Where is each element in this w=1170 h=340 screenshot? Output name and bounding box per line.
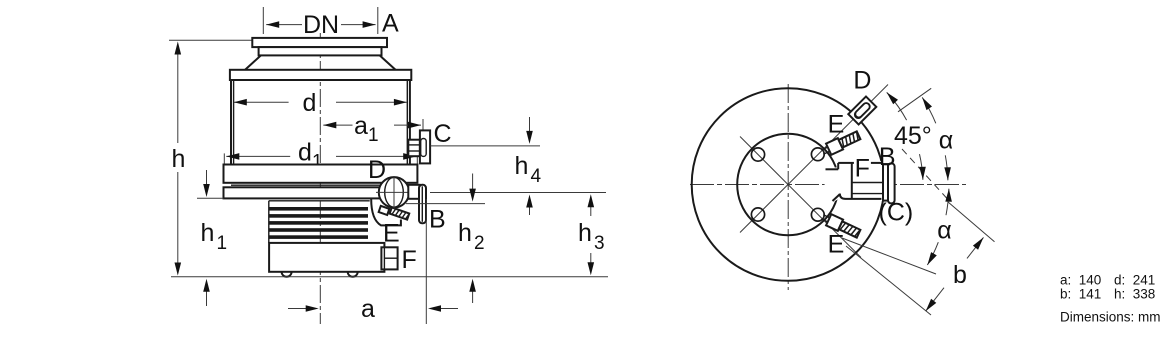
h top reference line bbox=[169, 39, 253, 41]
dimension a bbox=[288, 308, 306, 310]
svg-text:E: E bbox=[828, 111, 845, 139]
outer circle bbox=[692, 88, 885, 281]
bolt hole NW bbox=[751, 148, 764, 161]
d1 right extension tick bbox=[416, 147, 418, 166]
DN extension tick right bbox=[377, 7, 379, 34]
angle dim arc 45deg bbox=[887, 92, 907, 120]
svg-text:α: α bbox=[937, 217, 951, 245]
45deg radial line through D bbox=[788, 85, 888, 185]
svg-text:α: α bbox=[939, 127, 953, 155]
svg-text:b: 141: b: 141 bbox=[1060, 287, 1101, 302]
DN extension tick left bbox=[262, 7, 264, 34]
angle dim arc alpha upper bbox=[922, 97, 936, 123]
svg-text:d: d bbox=[303, 89, 317, 117]
collar band 1 bbox=[224, 165, 418, 183]
svg-text:h: h bbox=[458, 219, 472, 247]
svg-text:3: 3 bbox=[594, 233, 605, 254]
svg-text:a: 140: a: 140 bbox=[1060, 273, 1101, 288]
svg-text:d: d bbox=[298, 139, 312, 167]
svg-text:h: h bbox=[578, 219, 592, 247]
dimension h bbox=[177, 52, 179, 143]
svg-text:1: 1 bbox=[368, 125, 379, 146]
ext line D1 bbox=[842, 238, 936, 274]
dimension h3 bbox=[590, 207, 592, 217]
svg-text:b: b bbox=[953, 261, 967, 289]
C port flange plate bbox=[420, 130, 430, 163]
pump vertical centerline bbox=[319, 33, 321, 324]
svg-text:1: 1 bbox=[217, 233, 228, 254]
tab outline bottom bbox=[840, 194, 882, 199]
accessory box F bbox=[381, 247, 397, 269]
ext line D2 bbox=[846, 246, 931, 315]
tab outline top bbox=[826, 168, 839, 170]
diagonal centerline SE bbox=[788, 185, 861, 258]
svg-text:E: E bbox=[828, 231, 845, 259]
dimension h2 bbox=[472, 174, 474, 190]
dimension DN bbox=[266, 24, 302, 26]
diagonal centerline NW bbox=[740, 137, 788, 185]
svg-text:F: F bbox=[402, 246, 417, 274]
port hole E upper bbox=[811, 148, 824, 161]
foot right bbox=[348, 272, 358, 277]
svg-text:(C): (C) bbox=[879, 199, 914, 227]
tab notch wall bbox=[851, 163, 853, 199]
svg-text:F: F bbox=[855, 155, 870, 183]
dimension b bbox=[926, 288, 944, 311]
bolt hole SW bbox=[751, 208, 764, 221]
svg-text:h: 338: h: 338 bbox=[1114, 287, 1155, 302]
a right extension line bbox=[425, 199, 427, 324]
svg-text:DN: DN bbox=[303, 11, 339, 39]
inner circle bbox=[737, 134, 839, 236]
svg-text:D: D bbox=[853, 67, 871, 95]
B flange right view bbox=[883, 164, 888, 200]
D axis line (h4 bottom / h3 top ref) bbox=[430, 192, 606, 194]
ground line bbox=[171, 276, 608, 278]
svg-text:a: a bbox=[354, 112, 368, 140]
cooling fins bbox=[268, 201, 270, 243]
bottom view horizontal centerline bbox=[690, 184, 966, 186]
svg-text:2: 2 bbox=[474, 233, 485, 254]
collar mid line bbox=[231, 184, 410, 186]
svg-text:D: D bbox=[368, 156, 386, 184]
svg-text:h: h bbox=[201, 219, 215, 247]
svg-text:d: 241: d: 241 bbox=[1114, 273, 1155, 288]
body walls bbox=[230, 80, 232, 165]
E hose valve body bbox=[379, 206, 390, 215]
angle dim arc alpha lower bbox=[946, 189, 949, 216]
collar band 2 bbox=[224, 187, 418, 198]
D ball valve bbox=[379, 177, 409, 207]
port hole E lower bbox=[811, 208, 824, 221]
svg-text:C: C bbox=[434, 120, 452, 148]
body top band bbox=[230, 70, 411, 80]
diagonal centerline SW bbox=[740, 185, 788, 233]
svg-text:Dimensions: mm: Dimensions: mm bbox=[1060, 310, 1161, 325]
B stub lines right view bbox=[853, 182, 884, 184]
dimension h1 bbox=[206, 170, 208, 185]
base box bbox=[269, 243, 384, 272]
B port stub bbox=[408, 185, 419, 199]
foot left bbox=[282, 272, 292, 277]
inlet neck bbox=[259, 47, 382, 55]
dimension a1 bbox=[323, 124, 352, 126]
E vent hook bbox=[371, 199, 401, 225]
C axis line (h4 top ref) bbox=[431, 145, 541, 147]
hidden C port axis dashed bbox=[902, 149, 947, 199]
B axis line (h2 top ref) bbox=[406, 203, 485, 205]
dimension d1 bbox=[223, 153, 225, 165]
B port flange bbox=[419, 185, 426, 224]
dimension h4 bbox=[529, 117, 531, 131]
E valve assembly upper bbox=[820, 130, 861, 158]
svg-text:h: h bbox=[515, 152, 529, 180]
tab white mask bbox=[824, 161, 885, 208]
svg-text:B: B bbox=[429, 206, 446, 234]
h1 extension line bbox=[197, 197, 224, 199]
D port right view bbox=[848, 96, 876, 124]
svg-text:a: a bbox=[361, 295, 375, 323]
ext line D3 bbox=[948, 202, 994, 242]
svg-text:45°: 45° bbox=[894, 122, 932, 150]
svg-text:h: h bbox=[172, 145, 186, 173]
inlet flange bbox=[252, 38, 387, 47]
dimension d bbox=[234, 101, 289, 103]
C port stub bbox=[408, 140, 420, 157]
svg-text:A: A bbox=[382, 10, 399, 38]
line2 ext upper bbox=[898, 88, 931, 112]
svg-text:E: E bbox=[383, 220, 400, 248]
a1 right extension tick bbox=[422, 119, 424, 134]
E corrugated hose bbox=[390, 207, 410, 219]
svg-text:4: 4 bbox=[531, 166, 542, 187]
cone section bbox=[245, 55, 395, 69]
bottom view vertical centerline bbox=[787, 84, 789, 290]
E valve assembly lower bbox=[820, 211, 861, 239]
